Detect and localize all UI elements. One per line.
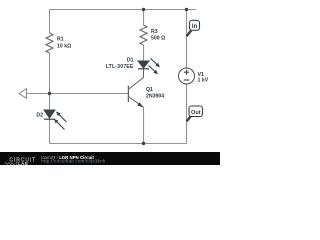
- svg-text:1 kV: 1 kV: [198, 78, 209, 84]
- wire bottom rail: [50, 143, 187, 145]
- svg-text:R3: R3: [151, 29, 158, 35]
- junction at emitter and bottom rail: [142, 142, 145, 145]
- junction at base wire and left branch: [48, 92, 51, 95]
- svg-text:LAB: LAB: [18, 161, 28, 165]
- resistor R3: [140, 25, 147, 45]
- photodiode D2: [44, 110, 55, 118]
- wire right branch lower: [186, 84, 188, 144]
- resistor R1: [46, 33, 53, 53]
- Q1 emitter arrowhead: [137, 102, 143, 107]
- svg-text:Q1: Q1: [146, 87, 153, 93]
- svg-text:http://circuitlab.com/c/8z3knh: http://circuitlab.com/c/8z3knh: [41, 158, 105, 163]
- svg-text:D1: D1: [127, 58, 134, 64]
- svg-text:R1: R1: [57, 37, 64, 43]
- wire top rail: [50, 9, 196, 11]
- wire middle branch upper: [143, 10, 145, 26]
- svg-text:In: In: [192, 24, 198, 30]
- LED D1: [138, 61, 149, 68]
- wire left branch mid: [49, 53, 51, 110]
- svg-text:2N3904: 2N3904: [146, 94, 164, 100]
- V1 plus sign: [184, 70, 189, 75]
- photodiode D2 light arrows: [59, 114, 67, 122]
- V1 minus sign: [184, 79, 190, 81]
- transistor Q1: [128, 69, 143, 108]
- svg-text:D2: D2: [36, 113, 43, 119]
- svg-text:10 kΩ: 10 kΩ: [57, 44, 71, 50]
- voltage source V1: [179, 68, 195, 84]
- svg-text:500 Ω: 500 Ω: [151, 36, 165, 42]
- LED D1 light arrows: [151, 59, 158, 65]
- node Out flag: [187, 116, 192, 122]
- junction at top of R3 branch: [142, 8, 145, 11]
- svg-text:Out: Out: [191, 110, 201, 116]
- node In flag: [187, 30, 192, 36]
- svg-text:LTL-307EE: LTL-307EE: [106, 64, 134, 70]
- input pin triangle: [19, 89, 27, 99]
- wire right branch upper: [186, 10, 188, 69]
- wire middle branch between R3 and D1: [143, 45, 145, 61]
- wire base horizontal: [27, 93, 129, 95]
- Q1 emitter lead: [129, 97, 144, 107]
- Q1 base bar: [127, 86, 129, 102]
- wire left branch lower: [49, 120, 51, 144]
- junction at top of right branch: [185, 8, 188, 11]
- banner: [0, 152, 220, 165]
- wire middle branch emitter to bottom: [143, 108, 145, 144]
- wire left branch upper: [49, 10, 51, 34]
- Q1 collector lead: [129, 69, 144, 89]
